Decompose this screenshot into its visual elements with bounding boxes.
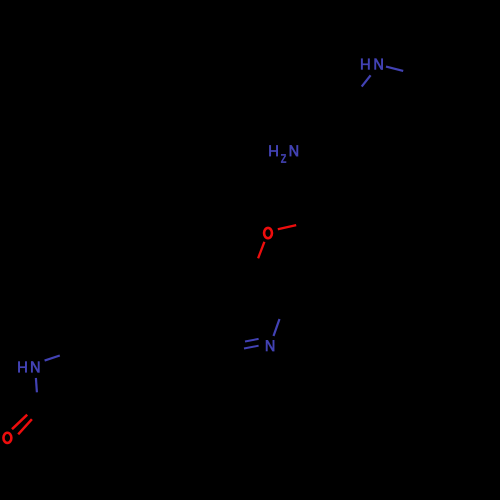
lactam N-H label (bottom left): [18, 361, 40, 372]
wire: indole N to C7a (down-left half-bond): [362, 75, 371, 86]
wire: C=O double bond upper-left red half-segment: [12, 415, 27, 430]
pyridine N label: [266, 340, 275, 351]
wire: indole N to C2 (right half-bond): [386, 67, 403, 71]
wire: pyridine C=N double bond upper half-segment: [245, 339, 259, 342]
wire: O to CH2 (up-right red half-bond): [278, 225, 296, 229]
wire: C=O double bond lower-right red half-segment: [18, 419, 32, 434]
wire: pyridine N to C (up-right half-bond): [274, 319, 280, 336]
wire: lactam N to ring C (up-right half-bond): [45, 356, 60, 361]
indole N-H label (top right): [361, 58, 383, 69]
wire: O to pyridine C (down-left red half-bond): [258, 242, 264, 258]
wire: lactam N to carbonyl C (down half-bond): [36, 378, 37, 392]
ether O label: [264, 228, 272, 238]
wire: pyridine C=N double bond lower half-segment: [244, 346, 259, 349]
amine H2N label: [269, 145, 298, 163]
carbonyl O label (bottom left): [3, 433, 11, 443]
